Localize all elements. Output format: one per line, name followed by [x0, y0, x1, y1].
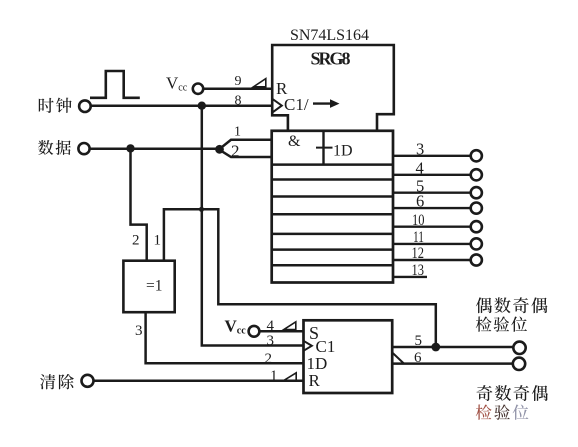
junction dot: clock node — [198, 102, 206, 110]
svg-text:5: 5 — [415, 333, 423, 349]
polarity triangle on R input of FF — [284, 373, 296, 381]
wire: pin 2 lower fan line — [220, 150, 273, 157]
terminal: data input — [78, 143, 89, 154]
output line QA pin 3 — [393, 155, 471, 157]
junction dot on output 5 — [431, 343, 440, 352]
svg-text:10: 10 — [412, 212, 425, 229]
svg-text:3: 3 — [267, 333, 275, 349]
terminal: odd parity output — [513, 358, 525, 370]
svg-text:&: & — [288, 133, 301, 150]
terminal: even parity output — [513, 342, 525, 354]
svg-text:4: 4 — [416, 159, 424, 178]
register stack outline — [272, 131, 393, 283]
terminal: clear input — [82, 375, 94, 387]
svg-text:=1: =1 — [146, 278, 163, 295]
output line QE pin 10 — [393, 225, 471, 227]
FF output 6 wire — [392, 362, 512, 365]
junction dot: data to XOR — [126, 144, 134, 152]
svg-text:SRG8: SRG8 — [311, 49, 351, 69]
label: even parity word2 — [476, 316, 492, 331]
wire: data down to XOR input 2 — [131, 148, 147, 260]
output line QD pin 6 — [393, 207, 471, 209]
XOR output wire pin 3 to FF 1D — [146, 312, 304, 363]
stack row line 6 — [272, 248, 393, 251]
output line QG pin 12 — [393, 259, 471, 261]
svg-text:3: 3 — [416, 140, 424, 159]
label: data (shuju) — [38, 140, 53, 155]
terminal: Vcc top — [193, 84, 203, 94]
C1/ label with dynamic wedge — [272, 99, 282, 113]
svg-text:R: R — [309, 371, 321, 390]
svg-text:11: 11 — [413, 229, 424, 246]
FF output 5 wire — [392, 346, 513, 349]
shift direction arrow — [313, 102, 331, 104]
junction dot: data pin1/2 fan — [215, 145, 224, 154]
svg-text:SN74LS164: SN74LS164 — [290, 27, 369, 44]
svg-text:1: 1 — [234, 125, 241, 140]
stack row line 1 — [272, 163, 393, 166]
& cell divider — [322, 131, 324, 165]
wire: clear input — [93, 380, 303, 383]
svg-text:9: 9 — [235, 74, 242, 89]
output line QF pin 11 — [393, 243, 471, 245]
output line QH pin 13 (stub) — [393, 276, 427, 278]
1D tick mark — [316, 147, 333, 149]
label: odd parity word2 (faded colors) — [476, 404, 492, 419]
svg-text:4: 4 — [267, 318, 275, 334]
feedback wire: FF Q to XOR input 1 — [164, 209, 436, 347]
terminal: Vcc bottom — [249, 326, 260, 337]
svg-text:2: 2 — [265, 351, 273, 367]
wire: clock down to FF C1 pin 3 — [202, 106, 304, 346]
terminal: clock input — [79, 100, 91, 112]
SRG8 control block outline — [272, 45, 394, 131]
svg-text:1: 1 — [154, 233, 162, 249]
label: odd parity word1 — [476, 385, 492, 401]
stack row line 3 — [272, 195, 393, 198]
XOR gate box — [123, 261, 174, 313]
svg-text:1D: 1D — [333, 143, 353, 160]
stack row line 4 — [272, 213, 393, 216]
svg-text:6: 6 — [414, 350, 422, 366]
svg-text:3: 3 — [135, 323, 143, 339]
label: clock (shizhong) — [39, 98, 54, 113]
svg-text:6: 6 — [416, 192, 424, 211]
svg-text:12: 12 — [412, 245, 425, 262]
clock pulse waveform symbol — [90, 71, 140, 98]
wire: Vcc to R pin 9 — [203, 87, 272, 90]
polarity triangle on R input — [254, 79, 266, 87]
svg-text:13: 13 — [412, 262, 425, 279]
output line QB pin 4 — [393, 174, 471, 176]
wire: Vcc to FF S pin 4 — [259, 330, 303, 333]
wire: clock input line — [91, 105, 273, 108]
crossing blob on clock line — [199, 207, 204, 212]
flip-flop box U2 — [304, 320, 393, 393]
svg-text:1: 1 — [270, 368, 278, 384]
label: even parity word1 — [476, 297, 492, 313]
C1 dynamic wedge — [304, 341, 312, 351]
polarity slash on output 6 — [392, 353, 404, 364]
svg-text:C1/: C1/ — [284, 95, 309, 114]
label: clear (qingchu) — [40, 374, 55, 389]
polarity triangle on S input — [284, 322, 296, 330]
stack row line 7 — [272, 264, 393, 267]
svg-text:8: 8 — [235, 94, 242, 109]
stack row line 2 — [272, 178, 393, 181]
stack row line 5 — [272, 233, 393, 236]
output line QC pin 5 — [393, 191, 471, 193]
wire: pin 1 upper fan line — [220, 140, 273, 149]
svg-text:2: 2 — [132, 233, 140, 249]
svg-text:2: 2 — [231, 142, 240, 161]
wire: data input line — [89, 147, 219, 150]
